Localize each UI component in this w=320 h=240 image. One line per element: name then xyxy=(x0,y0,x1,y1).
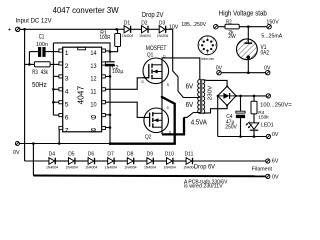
transistor Q2 circle xyxy=(144,108,169,133)
wire pin 7 to ground xyxy=(58,130,60,144)
pin stub 6 xyxy=(59,114,63,117)
junction bridge right vertex xyxy=(235,95,237,97)
svg-text:D8: D8 xyxy=(127,152,134,158)
socket pin 7 xyxy=(201,44,203,46)
Q1 middle tap with arrow xyxy=(153,71,162,73)
svg-text:High Voltage stab: High Voltage stab xyxy=(219,9,267,18)
svg-text:D7: D7 xyxy=(107,152,114,158)
svg-text:1N4004: 1N4004 xyxy=(124,165,137,170)
Q2 middle tap with arrow xyxy=(154,119,162,121)
diode D11 xyxy=(186,158,192,165)
diode D3 xyxy=(159,26,165,33)
junction V1 anode feed xyxy=(247,25,250,28)
wire C2 top stem xyxy=(109,52,111,62)
wire V1 anode stem xyxy=(247,27,249,44)
svg-text:1N4004: 1N4004 xyxy=(122,33,134,38)
wire chain link xyxy=(173,160,186,162)
wire D2-D3 link xyxy=(148,28,159,30)
svg-text:100R: 100R xyxy=(100,35,111,41)
wire gate 1 from pin 11 xyxy=(105,78,148,90)
wire +V rail pins 3-6 xyxy=(52,43,54,115)
LED1 bar xyxy=(250,129,258,131)
junction pin 4 rail xyxy=(52,88,55,91)
svg-text:0V: 0V xyxy=(264,66,271,72)
svg-text:D11: D11 xyxy=(185,152,194,158)
terminal filament 0V xyxy=(266,174,270,178)
svg-text:2W: 2W xyxy=(228,34,236,40)
wire D1-D2 link xyxy=(131,28,142,30)
wire 10V feed to center tap xyxy=(173,29,200,97)
svg-text:bottom view: bottom view xyxy=(201,57,214,61)
svg-text:14: 14 xyxy=(90,50,96,57)
diode D8 xyxy=(127,158,133,165)
transformer secondary 230V winding xyxy=(203,80,205,114)
svg-text:Q1: Q1 xyxy=(147,52,154,58)
wire pin 9 link xyxy=(105,114,110,116)
junction bridge left vertex xyxy=(217,95,219,97)
junction R3 left xyxy=(28,63,31,66)
socket pin 4 xyxy=(210,48,212,50)
svg-text:0V: 0V xyxy=(216,66,223,72)
wire chain link xyxy=(153,160,166,162)
junction C4 top xyxy=(239,95,242,98)
Q2 channel dashes xyxy=(152,112,154,116)
svg-text:4047 converter 3W: 4047 converter 3W xyxy=(53,6,120,15)
svg-text:7: 7 xyxy=(199,44,201,47)
terminal stab 0V right xyxy=(266,71,270,75)
diode D10 xyxy=(167,158,173,165)
wire 0V rail thin xyxy=(19,143,110,145)
terminal HV 0V xyxy=(266,134,270,138)
svg-text:185...250V: 185...250V xyxy=(181,22,206,28)
svg-text:43k: 43k xyxy=(41,69,49,76)
svg-text:Q2: Q2 xyxy=(145,135,152,141)
wire gate 2 from pin 10 xyxy=(105,102,149,117)
junction +12V at input corner xyxy=(23,28,26,31)
wire over-the-top VDD link xyxy=(53,43,110,52)
wire 0V rail thick xyxy=(109,143,176,145)
svg-text:4: 4 xyxy=(65,89,69,96)
svg-text:12: 12 xyxy=(90,76,96,83)
svg-text:150k: 150k xyxy=(258,114,269,120)
junction 0V filament drop xyxy=(32,142,35,145)
Q2 gate bar xyxy=(149,113,151,127)
socket pin 8 xyxy=(203,40,205,42)
wire thick drain jumper vertical xyxy=(183,117,185,135)
wire common source link Q1-Q2 xyxy=(161,79,163,113)
svg-text:2: 2 xyxy=(65,63,69,70)
capacitor C2 plates xyxy=(105,61,115,63)
IC notch xyxy=(78,47,86,50)
socket pin 6 xyxy=(203,48,205,50)
pin stub 13 xyxy=(102,62,106,65)
svg-text:0V: 0V xyxy=(272,174,279,180)
Q2 drain-source bar xyxy=(161,113,163,128)
pin stub 11 xyxy=(102,88,106,91)
junction source node xyxy=(161,96,164,99)
wire stab 0V rail xyxy=(221,72,265,74)
svg-text:5: 5 xyxy=(65,102,69,109)
bridge internal diode xyxy=(223,93,229,99)
svg-text:0A2: 0A2 xyxy=(261,50,270,56)
svg-text:6V: 6V xyxy=(272,159,279,165)
tube socket circle bottom view xyxy=(198,36,217,55)
wire HV+ rail xyxy=(236,95,266,97)
junction VDD node xyxy=(109,50,112,53)
wire to D4 anode xyxy=(25,160,49,162)
junction R1 top xyxy=(115,28,118,31)
junction V1 cathode to 0V xyxy=(247,71,250,74)
wire HV 0V rail xyxy=(218,136,267,138)
svg-text:50Hz: 50Hz xyxy=(32,82,47,89)
svg-text:D4: D4 xyxy=(49,152,56,158)
pin stub 4 xyxy=(59,88,63,91)
wire pin 8 link xyxy=(105,127,110,129)
Q2 bottom tap xyxy=(153,126,162,128)
wire C4 bottom stem xyxy=(240,118,242,136)
junction pin 5 rail xyxy=(52,101,55,104)
svg-text:C1: C1 xyxy=(39,35,45,41)
pin stub 2 xyxy=(59,62,63,65)
wire bridge minus to 0V rail xyxy=(217,96,219,137)
wire pin 3 stub link xyxy=(53,75,59,77)
wire Q1 drain to winding top xyxy=(162,58,200,80)
svg-text:9: 9 xyxy=(90,114,96,121)
wire secondary bottom lead to bridge xyxy=(203,106,228,114)
svg-text:3: 3 xyxy=(65,76,69,83)
pin stub 8 xyxy=(102,126,106,129)
wire chain link xyxy=(95,160,108,162)
transformer T1 primary 6V winding xyxy=(198,80,200,114)
svg-text:8: 8 xyxy=(90,127,96,134)
wire R4 to LED xyxy=(253,114,255,123)
wire bracket C1-left to R3-left xyxy=(28,52,30,65)
junction pin 12 ground xyxy=(109,75,112,78)
svg-text:MOSFET: MOSFET xyxy=(146,45,167,52)
svg-text:D10: D10 xyxy=(165,152,174,158)
Q1 channel dashes xyxy=(151,64,153,68)
terminal 185...250V input xyxy=(214,25,218,29)
svg-text:G: G xyxy=(141,80,144,84)
wire chain link xyxy=(55,160,68,162)
svg-text:10V: 10V xyxy=(169,24,179,30)
terminal 150V output xyxy=(267,25,271,29)
svg-text:4047: 4047 xyxy=(75,86,85,105)
pin stub 12 xyxy=(102,75,106,78)
pin stub 7 xyxy=(59,126,63,129)
wire chain link xyxy=(134,160,147,162)
svg-text:1N4004: 1N4004 xyxy=(105,165,118,170)
transformer core xyxy=(200,79,202,114)
svg-text:6V: 6V xyxy=(186,100,194,109)
Q1 bottom tap xyxy=(152,77,162,79)
svg-text:1N4004: 1N4004 xyxy=(66,165,79,170)
diode D5 xyxy=(69,158,75,165)
svg-text:1N4004: 1N4004 xyxy=(85,165,98,170)
LED1 emission arrows xyxy=(246,122,250,126)
wire secondary top lead to bridge xyxy=(203,80,228,87)
svg-text:11: 11 xyxy=(90,89,96,96)
svg-text:150V: 150V xyxy=(266,20,279,26)
terminal stab 0V left xyxy=(217,71,221,75)
svg-text:Drop 6V: Drop 6V xyxy=(194,163,216,170)
capacitor C1 plates xyxy=(38,47,41,57)
socket pin 2 xyxy=(210,40,212,42)
wire pin 14 to VDD node xyxy=(105,50,110,52)
Q2 top tap xyxy=(153,112,162,114)
pin stub 14 xyxy=(102,49,106,52)
svg-text:R3: R3 xyxy=(32,69,38,76)
junction IC rail ground xyxy=(109,142,112,145)
wire stab input to R2 xyxy=(218,26,225,28)
socket pin 1 xyxy=(206,39,208,41)
resistor R3 body xyxy=(34,62,50,67)
wire thick source to ground bus xyxy=(162,97,175,144)
bridge rectifier B1 diamond xyxy=(218,86,236,105)
svg-text:6: 6 xyxy=(201,50,203,53)
pin stub 9 xyxy=(102,114,106,117)
IC U1 4047 body xyxy=(63,47,102,132)
wire R1 bottom to VDD node xyxy=(110,47,118,52)
V1 cathode dot xyxy=(247,55,251,59)
wire pin 4 stub link xyxy=(53,88,59,90)
svg-text:Filament: Filament xyxy=(252,167,273,173)
wire LED to 0V rail xyxy=(253,131,255,137)
junction R4 top xyxy=(253,95,256,98)
svg-text:D1: D1 xyxy=(124,21,131,27)
svg-text:1N4004: 1N4004 xyxy=(139,33,151,38)
wire R1 top stem xyxy=(117,29,119,33)
wire rail to R3 xyxy=(25,63,35,65)
wire +12V left drop rail to diode chain xyxy=(24,29,26,161)
Q1 gate lead xyxy=(143,77,149,79)
Q1 gate bar xyxy=(148,64,150,78)
svg-text:1: 1 xyxy=(65,50,69,57)
svg-text:+: + xyxy=(8,27,12,34)
svg-text:D9: D9 xyxy=(147,152,154,158)
junction pin 8 ground xyxy=(109,126,112,129)
svg-text:Input DC 12V: Input DC 12V xyxy=(16,17,53,24)
junction bridge bottom vertex xyxy=(226,104,228,106)
svg-text:100...250V=: 100...250V= xyxy=(260,103,292,109)
svg-text:Drop 2V: Drop 2V xyxy=(142,11,164,19)
junction pin 9 ground xyxy=(109,114,112,117)
diode D2 xyxy=(142,26,148,33)
wire pin 5 stub link xyxy=(53,101,59,103)
diode D9 xyxy=(147,158,153,165)
junction pin 7 ground xyxy=(58,142,61,145)
socket pin 5 xyxy=(206,49,208,51)
wire pin 6 stub link xyxy=(53,114,59,116)
svg-text:R2: R2 xyxy=(226,20,232,26)
junction LED bottom xyxy=(253,135,256,138)
svg-text:1N4004: 1N4004 xyxy=(157,33,169,38)
svg-text:D5: D5 xyxy=(68,152,75,158)
pin stub 5 xyxy=(59,101,63,104)
svg-text:5...25mA: 5...25mA xyxy=(261,33,282,39)
pin stub 10 xyxy=(102,101,106,104)
wire C4 top stem xyxy=(240,96,242,111)
svg-text:LED1: LED1 xyxy=(261,123,274,129)
terminal HV+ output xyxy=(266,94,270,98)
svg-text:S: S xyxy=(167,83,170,87)
pin stub 1 xyxy=(59,49,63,52)
svg-text:1: 1 xyxy=(207,36,209,39)
svg-text:D6: D6 xyxy=(88,152,95,158)
svg-text:1N4004: 1N4004 xyxy=(46,165,59,170)
svg-text:1N4004: 1N4004 xyxy=(144,165,157,170)
socket pin 3 xyxy=(212,44,214,46)
wire R3 to pin 2 xyxy=(50,63,59,65)
V1 anode bar xyxy=(244,42,252,44)
diode D4 xyxy=(49,158,55,165)
junction C4 bottom xyxy=(239,135,242,138)
diode D7 xyxy=(108,158,114,165)
svg-text:13: 13 xyxy=(90,63,96,70)
svg-text:S: S xyxy=(167,106,170,110)
wire chain to filament 6V terminal xyxy=(193,160,266,162)
wire R2 to 150V terminal xyxy=(239,26,267,28)
svg-text:6V: 6V xyxy=(186,81,194,90)
svg-text:D3: D3 xyxy=(159,21,166,27)
pin stub 3 xyxy=(59,75,63,78)
wire +12V top rail xyxy=(20,28,124,30)
wire C1 to pin 1 xyxy=(29,51,38,53)
terminal filament 6V xyxy=(266,159,270,163)
Q1 drain-source bar xyxy=(161,64,163,78)
wire chain link xyxy=(75,160,88,162)
LED1 triangle xyxy=(249,123,259,129)
wire drain jumper to winding bottom xyxy=(184,113,200,118)
wire filament 0V drop xyxy=(32,144,34,176)
capacitor C4 plates xyxy=(236,111,245,113)
svg-text:4.5VA: 4.5VA xyxy=(191,120,208,127)
wire thick drain jumper horizontal xyxy=(162,133,184,135)
svg-text:0V: 0V xyxy=(272,132,279,138)
svg-text:is wired 230/11V: is wired 230/11V xyxy=(184,184,223,190)
wire Q2 drain lead xyxy=(161,127,163,134)
svg-text:100µ: 100µ xyxy=(112,69,123,75)
svg-text:0V: 0V xyxy=(13,150,20,156)
transistor Q1 circle xyxy=(143,58,169,84)
terminal 0V input xyxy=(15,142,19,146)
resistor R1 body xyxy=(115,34,121,47)
svg-text:D2: D2 xyxy=(141,21,148,27)
svg-text:230V: 230V xyxy=(207,85,213,100)
wire filament 0V bus xyxy=(33,175,265,178)
wire D3 to 10V node xyxy=(166,28,173,30)
svg-text:10: 10 xyxy=(90,102,96,109)
terminal input +12V xyxy=(16,27,20,31)
svg-text:100n: 100n xyxy=(36,42,48,48)
resistor R4 body xyxy=(251,101,257,114)
svg-text:1N4004: 1N4004 xyxy=(164,165,177,170)
wire chain link xyxy=(114,160,127,162)
svg-text:250V: 250V xyxy=(225,125,237,131)
svg-text:6: 6 xyxy=(65,114,69,121)
wire V1 cathode stem xyxy=(247,58,249,73)
diode D1 xyxy=(124,26,130,33)
resistor R2 body xyxy=(225,24,239,29)
wire pin 12 link xyxy=(105,75,110,77)
Q1 top tap xyxy=(152,64,162,66)
wire R4 top stem xyxy=(253,96,255,101)
junction bridge top vertex xyxy=(226,85,228,87)
svg-text:7: 7 xyxy=(65,127,69,134)
wire ground rail right of IC xyxy=(109,66,111,143)
diode D6 xyxy=(88,158,94,165)
